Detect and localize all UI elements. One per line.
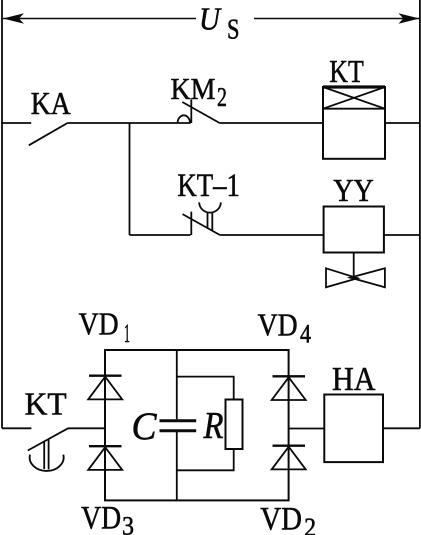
wire dimension line Us right segment [254, 18, 419, 20]
contact KT-1: blade [183, 214, 220, 235]
arrowhead right of Us dimension line [398, 13, 419, 24]
svg-text:3: 3 [122, 512, 134, 535]
contact KT (bottom, normally open, time delayed) blade [28, 428, 68, 450]
wire branch vertical from rung1 to rung2 [129, 123, 131, 235]
wire rung2 left: branch to KT-1 [130, 234, 191, 236]
wire inner loop to resistor R [177, 377, 234, 471]
diode VD1 [88, 376, 122, 400]
contact KM2: fixed bar [190, 100, 192, 124]
svg-text:YY: YY [333, 172, 374, 208]
resistor R (box) [226, 400, 243, 450]
wire bottom rung: left rail to KT contact [2, 427, 31, 429]
label VD3 [81, 500, 134, 535]
wire dimension line Us left segment [3, 18, 196, 20]
svg-text:KM: KM [171, 71, 216, 106]
wire bridge mid vertical lower [176, 432, 178, 500]
svg-text:R: R [203, 405, 224, 447]
arrowhead left of Us dimension line [3, 13, 24, 24]
label VD2 [260, 501, 316, 535]
wire KT contact to bridge left [68, 427, 105, 429]
svg-text:S: S [227, 15, 240, 46]
wire rung2 right: YY to right rail [384, 234, 420, 236]
svg-text:KT–1: KT–1 [177, 168, 240, 204]
contact KT bottom: parachute strings [44, 439, 48, 469]
contact KM2: arc bump [178, 115, 190, 123]
svg-text:U: U [199, 1, 222, 37]
svg-text:KA: KA [31, 85, 71, 121]
label VD4 [258, 307, 311, 349]
wire rung1 middle: KA to KM2 [68, 122, 191, 124]
wire rung1 right: KM2 to KT coil [220, 122, 323, 124]
contact KT bottom: time-delay parachute arc [30, 455, 64, 471]
wire bridge right to HA [289, 428, 325, 430]
svg-text:KT: KT [25, 386, 67, 422]
svg-text:C: C [132, 405, 158, 448]
svg-text:VD: VD [79, 305, 119, 341]
alarm HA (box) [324, 395, 383, 463]
svg-text:4: 4 [300, 320, 311, 349]
relay coil KT (box with X band) [323, 87, 385, 159]
svg-text:VD: VD [81, 500, 121, 535]
wire rung2 right: KT-1 to YY [220, 234, 324, 236]
diode VD3 [88, 446, 122, 470]
diode VD4 [272, 376, 306, 400]
capacitor C plates [160, 419, 197, 422]
bridge rectifier outline [105, 350, 289, 500]
node T-junction branch at x=129.5 [129, 122, 131, 124]
wire rung1 right: KT coil to right rail [385, 122, 420, 124]
svg-text:2: 2 [217, 82, 227, 112]
svg-text:1: 1 [124, 319, 130, 348]
svg-text:2: 2 [304, 513, 316, 535]
wire left supply rail [1, 0, 3, 428]
label Us [199, 1, 240, 46]
svg-text:KT: KT [329, 53, 364, 89]
valve symbol bowtie [326, 268, 385, 287]
wire rung1 left: left rail to KA [2, 122, 31, 124]
valve symbol below YY: stem [353, 253, 355, 278]
wire bridge mid vertical upper [176, 350, 178, 419]
contact KT-1: parachute strings [208, 212, 213, 230]
solenoid YY (box) [324, 207, 384, 253]
label KM2 [171, 71, 228, 112]
svg-text:HA: HA [332, 361, 376, 398]
contact KT-1: time-delay parachute arc [199, 202, 221, 212]
svg-text:VD: VD [260, 501, 302, 535]
diode VD2 [272, 446, 306, 470]
wire HA to right rail [383, 427, 420, 429]
wire right supply rail [419, 0, 421, 428]
contact KT-1: fixed bar [190, 212, 192, 235]
label VD1 [79, 305, 130, 348]
svg-text:VD: VD [258, 307, 298, 343]
contact KA (normally open) blade [29, 123, 68, 145]
contact KM2: blade [182, 102, 219, 123]
